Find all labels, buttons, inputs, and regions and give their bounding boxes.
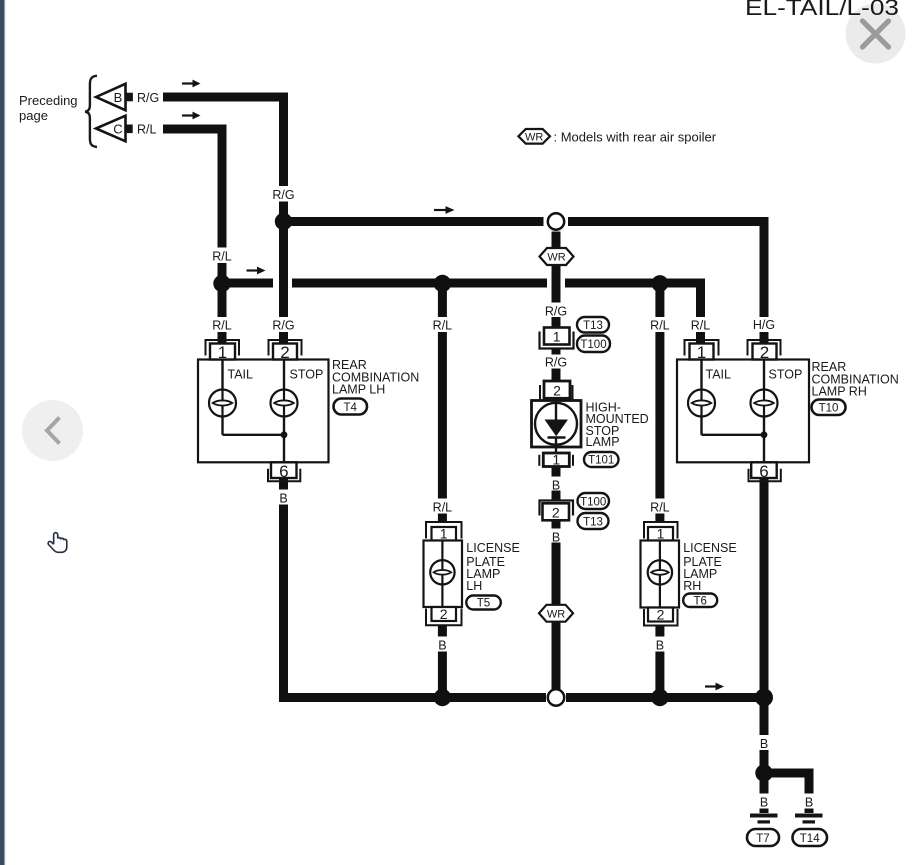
svg-text:STOP: STOP	[769, 368, 803, 382]
svg-text:T7: T7	[756, 833, 769, 845]
wire label B (x=764 above dot)	[756, 735, 772, 751]
bulb STOP LH	[271, 390, 298, 417]
high-mounted stop lamp connector pin 1 (T13/T100)	[540, 328, 574, 349]
svg-text:T101: T101	[588, 455, 614, 467]
wire R/L vertical x=700.5	[696, 279, 705, 344]
wire x=556 WR to conn T13	[552, 264, 561, 328]
connector triangle B	[96, 84, 133, 110]
svg-text:6: 6	[759, 462, 768, 481]
wire label H/G (x=764 pin row)	[751, 317, 778, 332]
svg-text:T4: T4	[343, 402, 357, 414]
connector oval T101	[584, 452, 619, 467]
wire R/G vertical x=283.5	[279, 93, 288, 344]
svg-text:EL-TAIL/L-03: EL-TAIL/L-03	[745, 0, 899, 20]
wire R/L vertical x=660	[655, 279, 664, 523]
open circle node bus1	[548, 213, 564, 229]
svg-text:6: 6	[279, 462, 288, 481]
wire x=556 conn to pin2	[552, 348, 561, 382]
pin 2 lamp LH	[269, 340, 302, 362]
wire x=556 WR2 to bottom circle	[552, 622, 561, 690]
svg-text:R/G: R/G	[545, 356, 567, 370]
left window edge bar	[0, 0, 5, 865]
arrow	[182, 80, 201, 88]
wire label B (x=442)	[435, 637, 451, 653]
svg-text:R/G: R/G	[272, 319, 294, 333]
svg-text:page: page	[19, 108, 48, 123]
svg-text:1: 1	[553, 329, 561, 345]
svg-text:B: B	[552, 530, 560, 544]
pin 2 lamp RH	[748, 340, 781, 362]
wire B vertical x=764 (lamp RH pin6 to bottom)	[760, 478, 769, 702]
svg-text:T100: T100	[580, 496, 606, 508]
svg-text:2: 2	[552, 504, 560, 520]
wire R/L from C	[163, 125, 227, 134]
svg-text:2: 2	[760, 343, 769, 362]
label HIGH-MOUNTED STOP LAMP	[586, 401, 649, 450]
node dot bus1/RG	[275, 213, 292, 230]
svg-text:T14: T14	[800, 833, 820, 845]
wire x=556 pin1 to conn2	[552, 467, 561, 502]
svg-text:LAMP: LAMP	[586, 435, 620, 449]
svg-text:R/G: R/G	[545, 305, 567, 319]
high-mounted stop lamp pin 2	[540, 381, 573, 400]
svg-text:TAIL: TAIL	[228, 368, 254, 382]
wire B vertical x=660 (license RH to bottom)	[655, 625, 664, 698]
wire label R/L (x=222 pin row)	[209, 317, 235, 333]
arrow on bus2	[247, 267, 266, 275]
svg-text:R/G: R/G	[272, 188, 294, 202]
connector oval T4	[334, 399, 368, 415]
wire label R/L (x=660 license row)	[647, 499, 673, 515]
wire label R/L (x=442 license row)	[429, 499, 455, 515]
svg-text:T10: T10	[819, 402, 839, 414]
svg-text:TAIL: TAIL	[706, 368, 732, 382]
wire label R/G (x=556 above conn)	[543, 303, 570, 319]
high-mounted stop lamp pin 1	[539, 451, 573, 467]
svg-text:R/L: R/L	[212, 250, 232, 264]
ground T14	[795, 814, 823, 824]
WR diamond bottom	[539, 605, 573, 622]
connector oval T10	[812, 400, 846, 416]
wire bottom horizontal y=697.5	[279, 693, 546, 702]
bulb STOP RH	[751, 390, 778, 417]
high-mounted stop lamp body T101	[532, 401, 582, 454]
node dot ground branch	[755, 764, 772, 781]
legend WR symbol	[518, 129, 550, 144]
wire bus2 horizontal y=283	[218, 279, 274, 288]
bulb TAIL RH	[688, 390, 715, 417]
svg-text:H/G: H/G	[753, 318, 775, 332]
svg-text:: Models with rear air spoiler: : Models with rear air spoiler	[554, 129, 717, 144]
svg-text:T6: T6	[693, 596, 706, 608]
svg-text:B: B	[656, 639, 664, 653]
wire label R/L (x=660 pin row)	[647, 317, 673, 333]
connector oval T100 lower	[578, 493, 610, 509]
wire R/G from B	[163, 93, 284, 102]
connector oval T13	[577, 317, 609, 333]
svg-text:2: 2	[280, 343, 289, 362]
wire B vertical x=283.5 (lamp LH to bottom)	[279, 478, 288, 702]
svg-text:STOP: STOP	[290, 368, 324, 382]
pin 1 lamp LH	[206, 340, 240, 362]
svg-text:C: C	[113, 122, 122, 137]
svg-text:LICENSE: LICENSE	[466, 541, 520, 555]
svg-text:B: B	[438, 639, 446, 653]
wire label B (x=283.5)	[276, 490, 292, 506]
rear combination lamp LH box T4	[198, 360, 329, 463]
svg-text:1: 1	[552, 451, 560, 467]
svg-text:B: B	[114, 90, 123, 105]
svg-text:1: 1	[657, 525, 665, 541]
svg-text:R/L: R/L	[433, 319, 453, 333]
wire B branch to T14	[764, 769, 809, 778]
svg-text:1: 1	[697, 343, 706, 362]
bulb license RH	[648, 560, 672, 584]
label REAR COMBINATION LAMP RH	[812, 360, 899, 399]
svg-text:R/L: R/L	[650, 500, 670, 514]
node dot bottom x=442	[434, 689, 451, 706]
pin 1 lamp RH	[685, 340, 719, 362]
svg-text:1: 1	[218, 343, 227, 362]
wire label R/L (x=222 upper)	[209, 248, 235, 264]
svg-text:R/L: R/L	[650, 319, 670, 333]
connector oval T5	[466, 596, 501, 610]
arrow	[182, 112, 201, 120]
wire label R/L (x=442 pin row)	[429, 317, 455, 333]
wire label R/L (x=700.5 pin row)	[688, 317, 714, 333]
ground T7	[750, 814, 778, 824]
wire label B (x=660)	[652, 637, 668, 653]
svg-text:B: B	[760, 796, 768, 810]
svg-text:R/G: R/G	[137, 91, 159, 105]
node dot bus2 x=660	[652, 275, 669, 292]
svg-text:WR: WR	[547, 252, 565, 264]
svg-text:T13: T13	[583, 320, 603, 332]
close button	[846, 4, 906, 64]
svg-text:B: B	[760, 737, 768, 751]
wire label B (x=556 below conn2)	[549, 529, 564, 545]
wire label B (x=764 above gnd)	[756, 794, 772, 810]
wire label B (x=809 above gnd)	[801, 794, 817, 810]
wire x=556 circle to WR	[552, 232, 561, 249]
connector oval T100	[577, 336, 610, 353]
svg-text:T5: T5	[477, 598, 490, 610]
license plate lamp LH pin 1	[426, 522, 462, 541]
svg-text:B: B	[279, 492, 287, 506]
wire R/L vertical x=442.4	[438, 279, 447, 523]
svg-text:WR: WR	[525, 132, 543, 144]
arrow on bus1	[434, 206, 455, 214]
connector oval T13 lower	[578, 513, 609, 529]
license plate lamp RH body T6	[641, 541, 680, 608]
svg-text:R/L: R/L	[137, 123, 157, 137]
svg-text:T100: T100	[580, 339, 606, 351]
svg-text:R/L: R/L	[691, 319, 711, 333]
WR diamond top	[540, 248, 574, 265]
svg-text:R/L: R/L	[212, 319, 232, 333]
wire label R/G (x=283.5 pin row)	[270, 317, 297, 333]
bulb license LH	[430, 560, 454, 584]
wire label R/G (x=556 below conn)	[543, 355, 570, 370]
connector triangle C	[96, 116, 133, 142]
arrow on bottom bus	[705, 683, 724, 691]
pin 6 lamp LH	[268, 462, 300, 481]
svg-text:2: 2	[440, 606, 448, 622]
high-mounted conn pin 2 (T100/T13)	[540, 501, 574, 521]
svg-text:R/L: R/L	[433, 500, 453, 514]
svg-text:T13: T13	[583, 516, 603, 528]
wire R/L vertical x=222	[218, 125, 227, 344]
svg-text:LH: LH	[466, 579, 482, 593]
label LICENSE PLATE LAMP RH	[683, 541, 737, 593]
wire H/G vertical x=764	[760, 217, 769, 344]
wire x=556 conn2 to WR2	[552, 521, 561, 606]
node dot bottom right corner	[755, 689, 773, 707]
license plate lamp LH body T5	[424, 541, 463, 608]
svg-text:LAMP LH: LAMP LH	[332, 383, 385, 397]
open circle node bottom	[548, 689, 564, 705]
node dot bus2 left	[213, 275, 230, 292]
wire label R/G (x=283.5 upper)	[270, 186, 297, 202]
node dot bus2 x=442	[434, 275, 451, 292]
label LICENSE PLATE LAMP LH	[466, 541, 520, 593]
bulb TAIL LH	[209, 390, 236, 417]
node dot bottom x=660	[651, 689, 668, 706]
connector oval T7	[747, 829, 779, 846]
svg-text:1: 1	[440, 525, 448, 541]
svg-text:LICENSE: LICENSE	[683, 541, 737, 555]
svg-text:2: 2	[553, 382, 561, 398]
license plate lamp RH pin 2	[644, 606, 678, 625]
svg-text:WR: WR	[547, 608, 565, 620]
wire B vertical x=442.4 (license LH to bottom)	[438, 625, 447, 698]
wire B vertical x=764 below bottom bus	[760, 702, 769, 813]
wire label B (x=556 below lamp)	[549, 477, 564, 493]
pin 6 lamp RH	[749, 462, 781, 481]
rear combination lamp RH box T10	[677, 360, 809, 463]
license plate lamp LH pin 2	[426, 606, 462, 626]
svg-text:B: B	[805, 796, 813, 810]
svg-text:LAMP RH: LAMP RH	[812, 385, 867, 399]
svg-text:B: B	[552, 478, 560, 492]
hand cursor	[48, 533, 67, 553]
brace	[85, 76, 97, 147]
connector oval T6	[683, 594, 717, 608]
svg-text:Preceding: Preceding	[19, 93, 78, 108]
wire bus1 horizontal y=221.5	[279, 217, 544, 226]
label REAR COMBINATION LAMP LH	[332, 358, 419, 397]
svg-text:2: 2	[657, 606, 665, 622]
license plate lamp RH pin 1	[644, 522, 678, 541]
back button	[22, 400, 83, 461]
svg-text:RH: RH	[683, 579, 701, 593]
connector oval T14	[793, 829, 828, 846]
